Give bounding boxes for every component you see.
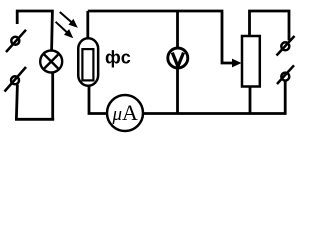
wiper arrowhead <box>232 59 242 68</box>
wire: lamp-circuit top run <box>17 11 52 51</box>
wire: voltmeter bottom lead <box>176 69 179 114</box>
wire: lamp-circuit bottom run <box>16 73 54 119</box>
lamp EL1 (circle with X) <box>40 51 62 73</box>
terminal X2 (lower left, circle with slash) <box>5 67 27 92</box>
wire: voltmeter top lead <box>176 11 179 48</box>
light arrow 1 <box>60 12 76 26</box>
terminal X3 (upper right, circle with slash) <box>277 36 295 56</box>
wire: main bottom run <box>144 82 286 114</box>
terminal X1 (upper left, circle with slash) <box>6 30 26 52</box>
microammeter PA1 (circle) <box>107 95 143 131</box>
photocell cathode plate (inner rect) <box>82 49 93 80</box>
voltmeter PV1 <box>168 48 188 68</box>
svg-text:μA: μA <box>112 100 139 125</box>
terminal X4 (lower right, circle with slash) <box>277 65 294 84</box>
wire: photocell top lead <box>86 11 89 39</box>
photocell tube (capsule) <box>78 38 98 86</box>
wire: rheostat top lead + upper run to terminal <box>250 11 290 41</box>
light arrow 2 <box>56 22 72 37</box>
wire: main top run <box>88 11 233 63</box>
rheostat R1 (rectangle) <box>242 36 260 87</box>
svg-text:фс: фс <box>105 47 131 67</box>
wire: rheostat bottom lead <box>249 88 252 114</box>
wire: photocell bottom lead to microammeter <box>89 86 106 114</box>
